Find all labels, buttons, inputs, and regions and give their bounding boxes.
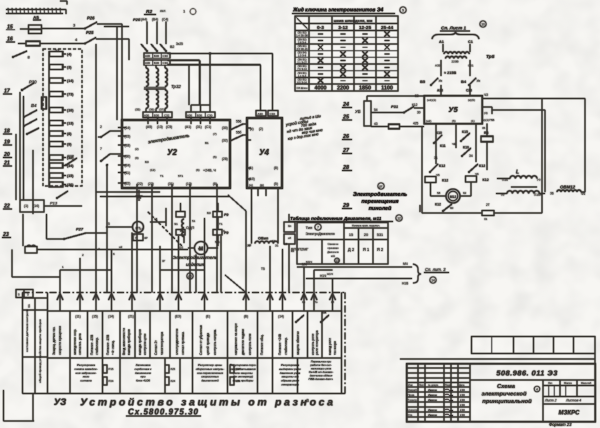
svg-text:принимая: принимая bbox=[328, 247, 340, 250]
svg-text:92: 92 bbox=[463, 191, 467, 195]
svg-text:(30): (30) bbox=[222, 126, 228, 130]
svg-text:А30: А30 bbox=[187, 113, 193, 117]
svg-text:Утв.: Утв. bbox=[408, 413, 414, 417]
svg-text:Питание -15В: Питание -15В bbox=[106, 335, 110, 355]
svg-text:Жид ключина электромагнитов Э: Жид ключина электромагнитов Э4 bbox=[292, 8, 383, 14]
svg-text:Ун: Ун bbox=[439, 79, 443, 83]
svg-text:Сигнал от убранных: Сигнал от убранных bbox=[199, 325, 203, 355]
svg-text:Таблица подключения Двигателя,: Таблица подключения Двигателя, м11 bbox=[290, 215, 382, 221]
svg-text:(5): (5) bbox=[274, 182, 278, 186]
svg-text:С1: С1 bbox=[468, 40, 473, 44]
svg-text:шкив шпинделя, мм: шкив шпинделя, мм bbox=[334, 18, 373, 23]
svg-text:В4: В4 bbox=[31, 103, 37, 108]
svg-text:(2): (2) bbox=[259, 127, 263, 131]
svg-text:58: 58 bbox=[437, 191, 441, 195]
svg-text:(32): (32) bbox=[222, 139, 228, 143]
svg-text:511: 511 bbox=[215, 240, 220, 244]
svg-text:С30: С30 bbox=[163, 61, 169, 65]
svg-text:Изм: Изм bbox=[408, 384, 413, 387]
svg-text:контроль поля: контроль поля bbox=[248, 333, 252, 355]
svg-text:556: 556 bbox=[236, 120, 242, 124]
svg-text:L: L bbox=[516, 170, 519, 176]
svg-text:2.94: 2.94 bbox=[460, 414, 465, 417]
svg-text:Сх.5800.975.30: Сх.5800.975.30 bbox=[128, 408, 199, 417]
svg-text:изделия: изделия bbox=[186, 262, 204, 268]
svg-text:(22): (22) bbox=[137, 182, 143, 186]
svg-text:б25: б25 bbox=[171, 367, 176, 371]
svg-text:двигателей: двигателей bbox=[201, 379, 219, 383]
svg-text:цепей привода: цепей привода bbox=[206, 333, 210, 355]
svg-text:напряжение на якоре: напряжение на якоре bbox=[234, 323, 238, 355]
svg-text:б1: б1 bbox=[272, 239, 276, 243]
svg-text:51: 51 bbox=[192, 219, 196, 223]
svg-text:(13): (13) bbox=[186, 182, 192, 186]
svg-text:220В: 220В bbox=[451, 60, 458, 64]
svg-text:(1): (1) bbox=[471, 119, 475, 123]
svg-text:33: 33 bbox=[55, 49, 59, 53]
svg-text:(14): (14) bbox=[278, 315, 284, 319]
svg-text:Р26: Р26 bbox=[87, 16, 95, 21]
svg-text:Б30: Б30 bbox=[154, 61, 160, 65]
svg-text:(н1)(1): (н1)(1) bbox=[427, 98, 436, 102]
svg-text:контроль напряж.: контроль напряж. bbox=[213, 329, 217, 355]
svg-text:УЗ: УЗ bbox=[54, 397, 66, 408]
svg-text:В5: В5 bbox=[420, 79, 426, 84]
svg-text:МЧ: МЧ bbox=[403, 262, 408, 266]
svg-text:(13): (13) bbox=[67, 122, 74, 126]
svg-text:К12: К12 bbox=[439, 164, 445, 168]
svg-text:БЗ: БЗ bbox=[207, 211, 211, 215]
svg-text:Дата: Дата bbox=[459, 384, 465, 387]
svg-text:2.94: 2.94 bbox=[460, 399, 465, 402]
svg-text:511: 511 bbox=[198, 247, 203, 251]
svg-text:блок 4106: блок 4106 bbox=[136, 379, 150, 383]
svg-text:Иванов: Иванов bbox=[428, 393, 437, 397]
svg-text:7: 7 bbox=[100, 147, 102, 151]
svg-text:(35): (35) bbox=[135, 108, 140, 112]
svg-text:З1: З1 bbox=[275, 244, 279, 248]
svg-text:4Р: 4Р bbox=[144, 236, 148, 240]
svg-text:Вход зависимости: Вход зависимости bbox=[122, 328, 126, 355]
svg-text:Об.Шпин: Об.Шпин bbox=[297, 86, 308, 90]
svg-text:Р2б: Р2б bbox=[133, 17, 141, 22]
svg-text:У5: У5 bbox=[448, 105, 458, 114]
svg-text:Лист: Лист bbox=[419, 384, 425, 387]
svg-text:У2: У2 bbox=[167, 148, 177, 157]
svg-text:(А4): (А4) bbox=[141, 18, 147, 22]
svg-text:С32: С32 bbox=[164, 113, 170, 117]
svg-text:Т5: Т5 bbox=[261, 267, 265, 271]
svg-text:5: 5 bbox=[108, 222, 110, 226]
svg-text:25-44: 25-44 bbox=[381, 25, 394, 31]
svg-text:А30: А30 bbox=[145, 54, 151, 58]
svg-text:Лист 2: Лист 2 bbox=[544, 399, 557, 403]
svg-text:6,5 Э-14: 6,5 Э-14 bbox=[297, 81, 307, 84]
svg-text:реле генератора: реле генератора bbox=[315, 330, 319, 355]
svg-text:а: а bbox=[306, 398, 309, 404]
svg-text:425: 425 bbox=[413, 122, 419, 126]
svg-text:З1: З1 bbox=[434, 156, 438, 160]
svg-text:1,1 Э-3: 1,1 Э-3 bbox=[298, 75, 307, 78]
svg-text:Иванов: Иванов bbox=[428, 388, 437, 392]
svg-text:15: 15 bbox=[349, 233, 353, 237]
svg-text:Н1Ч: Н1Ч bbox=[327, 272, 333, 276]
svg-text:электрической: электрической bbox=[481, 391, 527, 398]
svg-text:электродвигателя: электродвигателя bbox=[175, 328, 179, 355]
svg-text:Сп. лит. 3: Сп. лит. 3 bbox=[425, 267, 446, 272]
svg-text:К12: К12 bbox=[442, 179, 448, 183]
svg-text:1З4: 1З4 bbox=[236, 367, 241, 371]
svg-text:2: 2 bbox=[100, 125, 102, 129]
svg-text:С31: С31 bbox=[468, 64, 474, 68]
svg-text:(ч): (ч) bbox=[537, 178, 541, 182]
svg-text:По: По bbox=[314, 300, 318, 304]
svg-text:сигнализ. узла: сигнализ. узла bbox=[78, 333, 82, 355]
svg-text:30: 30 bbox=[417, 111, 421, 115]
svg-text:н2: н2 bbox=[119, 245, 123, 249]
svg-text:2Т: 2Т bbox=[486, 203, 490, 207]
svg-text:Р28: Р28 bbox=[67, 155, 75, 159]
svg-text:9: 9 bbox=[402, 8, 404, 12]
svg-text:(В): (В) bbox=[244, 315, 248, 319]
svg-text:18: 18 bbox=[154, 217, 158, 221]
svg-text:защита обмотки: защита обмотки bbox=[296, 331, 300, 355]
svg-text:1100: 1100 bbox=[381, 86, 393, 92]
svg-text:(73): (73) bbox=[67, 93, 74, 97]
svg-text:17: 17 bbox=[140, 227, 144, 231]
svg-text:м11: м11 bbox=[331, 255, 336, 258]
svg-text:в2: в2 bbox=[291, 249, 295, 253]
svg-text:Н1Ч: Н1Ч bbox=[320, 274, 326, 278]
svg-text:У4: У4 bbox=[259, 148, 269, 157]
svg-text:Иванов: Иванов bbox=[428, 408, 437, 412]
svg-text:(6): (6) bbox=[196, 168, 200, 172]
svg-text:(1): (1) bbox=[24, 204, 28, 208]
svg-text:ПВБ-динамо-датч.: ПВБ-динамо-датч. bbox=[309, 377, 334, 381]
svg-text:1,5 Э-8: 1,5 Э-8 bbox=[298, 55, 307, 58]
svg-text:К10: К10 bbox=[436, 131, 442, 135]
svg-text:принципиальной: принципиальной bbox=[482, 398, 532, 405]
svg-text:а2: а2 bbox=[248, 243, 252, 247]
svg-text:Р9: Р9 bbox=[224, 213, 228, 217]
svg-text:К12: К12 bbox=[435, 203, 441, 207]
svg-text:(28): (28) bbox=[222, 157, 228, 161]
svg-text:Т1: Т1 bbox=[160, 174, 164, 178]
svg-text:Иванов: Иванов bbox=[428, 413, 437, 417]
svg-text:Р27: Р27 bbox=[76, 227, 84, 232]
svg-text:Иванов: Иванов bbox=[428, 398, 437, 402]
svg-text:(7): (7) bbox=[213, 132, 217, 136]
svg-text:ЧЕ: ЧЕ bbox=[452, 142, 456, 146]
svg-text:+24В, Ч: +24В, Ч bbox=[203, 169, 216, 173]
svg-text:С30: С30 bbox=[207, 113, 213, 117]
svg-text:Т1: Т1 bbox=[219, 222, 223, 226]
svg-text:К10: К10 bbox=[463, 146, 469, 150]
svg-text:(31): (31) bbox=[168, 182, 174, 186]
svg-text:С33: С33 bbox=[466, 89, 472, 93]
svg-text:В2: В2 bbox=[170, 45, 174, 49]
svg-text:3,5 Э6-16: 3,5 Э6-16 bbox=[297, 48, 309, 51]
svg-text:Пров.: Пров. bbox=[408, 393, 416, 397]
svg-text:31: 31 bbox=[484, 217, 488, 221]
svg-text:Смена не: Смена не bbox=[328, 243, 339, 246]
svg-text:Масса: Масса bbox=[564, 381, 572, 385]
svg-text:12-25: 12-25 bbox=[359, 25, 372, 31]
svg-text:Лит.: Лит. bbox=[548, 381, 553, 385]
svg-text:(к)(6): (к)(6) bbox=[468, 98, 475, 102]
svg-text:Разраб.: Разраб. bbox=[408, 388, 418, 392]
svg-text:А1: А1 bbox=[439, 40, 444, 44]
svg-text:1,4 Э5-Э8: 1,4 Э5-Э8 bbox=[296, 35, 308, 38]
svg-text:ЧЗ: ЧЗ bbox=[484, 93, 488, 97]
svg-text:Я 1: Я 1 bbox=[363, 247, 370, 252]
svg-text:(14): (14) bbox=[67, 79, 74, 83]
svg-text:А35: А35 bbox=[435, 64, 441, 68]
svg-text:А30: А30 bbox=[144, 113, 150, 117]
svg-text:3-12: 3-12 bbox=[338, 25, 348, 31]
svg-text:Н.контр.: Н.контр. bbox=[408, 408, 419, 412]
svg-text:Б30: Б30 bbox=[154, 113, 160, 117]
svg-text:(2): (2) bbox=[135, 147, 139, 151]
svg-text:(Е): (Е) bbox=[206, 315, 210, 319]
svg-text:Д 2: Д 2 bbox=[348, 247, 355, 252]
svg-text:Тр32: Тр32 bbox=[171, 84, 181, 89]
svg-text:0-3: 0-3 bbox=[317, 25, 324, 31]
svg-text:генератора: генератора bbox=[281, 383, 299, 387]
svg-text:5Т1: 5Т1 bbox=[178, 174, 184, 178]
svg-text:(9): (9) bbox=[135, 156, 139, 160]
svg-text:10: 10 bbox=[481, 22, 485, 26]
svg-text:90: 90 bbox=[450, 206, 454, 210]
svg-text:(В4): (В4) bbox=[152, 18, 158, 22]
svg-text:(36): (36) bbox=[67, 183, 74, 187]
svg-text:1З6: 1З6 bbox=[236, 379, 241, 383]
svg-text:4: 4 bbox=[536, 387, 538, 391]
svg-text:12: 12 bbox=[397, 216, 401, 220]
svg-text:(н2): (н2) bbox=[426, 119, 431, 123]
svg-text:выход реле: выход реле bbox=[328, 338, 332, 355]
svg-text:ОВМ12: ОВМ12 bbox=[560, 185, 576, 190]
svg-text:(ЕЗ): (ЕЗ) bbox=[175, 315, 181, 319]
svg-text:Я 2: Я 2 bbox=[377, 247, 384, 252]
svg-text:общий провод устройства защиты: общий провод устройства защиты приборов bbox=[38, 319, 42, 383]
svg-text:(8): (8) bbox=[213, 182, 217, 186]
svg-text:Питание -15В: Питание -15В bbox=[90, 335, 94, 355]
svg-text:стабилизир.: стабилизир. bbox=[284, 337, 288, 355]
svg-text:К12: К12 bbox=[412, 103, 418, 107]
svg-text:(16): (16) bbox=[67, 109, 74, 113]
svg-text:(14): (14) bbox=[33, 204, 39, 208]
svg-text:перемещения: перемещения bbox=[361, 199, 399, 205]
svg-text:Р25: Р25 bbox=[86, 30, 94, 35]
svg-text:М1Ч: М1Ч bbox=[306, 260, 312, 264]
svg-text:КА: КА bbox=[27, 304, 31, 308]
svg-text:Э1: Э1 bbox=[174, 222, 178, 226]
svg-text:З4: З4 bbox=[469, 154, 473, 158]
svg-text:скорости вращения: скорости вращения bbox=[58, 326, 62, 355]
svg-text:К12: К12 bbox=[483, 178, 489, 182]
svg-text:Схема: Схема bbox=[497, 384, 516, 390]
svg-text:(36): (36) bbox=[149, 108, 154, 112]
svg-text:С30: С30 bbox=[163, 54, 169, 58]
svg-text:Электродвигатель: Электродвигатель bbox=[353, 192, 407, 198]
svg-text:выхода приборов: выхода приборов bbox=[138, 329, 142, 355]
svg-text:ЭлектроДвигателя: ЭлектроДвигателя bbox=[305, 232, 334, 236]
svg-text:К12: К12 bbox=[479, 164, 485, 168]
svg-text:2,8 Э-4: 2,8 Э-4 bbox=[298, 41, 307, 44]
svg-text:3х25: 3х25 bbox=[176, 42, 183, 46]
svg-text:Питание +24В: Питание +24В bbox=[278, 334, 282, 355]
svg-text:7: 7 bbox=[317, 225, 319, 229]
svg-text:БЗ: БЗ bbox=[145, 160, 149, 164]
svg-text:13: 13 bbox=[335, 259, 339, 263]
svg-text:Листов 4: Листов 4 bbox=[565, 399, 581, 403]
svg-text:ток якоря: ток якоря bbox=[333, 341, 337, 355]
svg-text:508.986. 011 Э3: 508.986. 011 Э3 bbox=[496, 369, 558, 378]
svg-text:(5): (5) bbox=[452, 119, 456, 123]
svg-text:35: 35 bbox=[482, 126, 486, 130]
svg-text:+4г смещ.: +4г смещ. bbox=[111, 340, 115, 355]
svg-text:55б: 55б bbox=[236, 131, 242, 135]
svg-text:замедления скор.: замедления скор. bbox=[73, 329, 77, 355]
svg-text:20: 20 bbox=[364, 233, 368, 237]
svg-text:531: 531 bbox=[377, 233, 383, 237]
svg-text:(15): (15) bbox=[67, 174, 74, 178]
svg-text:14: 14 bbox=[431, 278, 435, 282]
svg-text:(А1): (А1) bbox=[185, 125, 191, 129]
svg-text:№ докум.: № докум. bbox=[428, 384, 439, 387]
svg-text:(5): (5) bbox=[213, 155, 217, 159]
svg-text:≈ 215В: ≈ 215В bbox=[444, 71, 456, 75]
svg-text:А5: А5 bbox=[33, 15, 39, 20]
svg-text:4000: 4000 bbox=[315, 86, 327, 92]
svg-text:С30: С30 bbox=[270, 112, 276, 116]
svg-text:К11: К11 bbox=[440, 144, 446, 148]
svg-text:(в): (в) bbox=[260, 184, 264, 188]
svg-text:состояние датчиков контроля: состояние датчиков контроля bbox=[25, 309, 29, 352]
svg-text:В4: В4 bbox=[461, 79, 467, 84]
svg-text:двигателя подачи: двигателя подачи bbox=[241, 329, 245, 355]
svg-text:(11): (11) bbox=[75, 315, 80, 319]
svg-text:2.94: 2.94 bbox=[460, 404, 465, 407]
svg-text:10: 10 bbox=[284, 242, 288, 246]
svg-text:К15: К15 bbox=[462, 130, 468, 134]
svg-text:(А5): (А5) bbox=[146, 125, 152, 129]
svg-text:(14): (14) bbox=[108, 315, 114, 319]
svg-text:(34): (34) bbox=[67, 164, 74, 168]
svg-text:Р13: Р13 bbox=[50, 201, 58, 206]
svg-text:А30: А30 bbox=[258, 112, 264, 116]
svg-text:(С4): (С4) bbox=[162, 18, 168, 22]
svg-text:выхода приборов: выхода приборов bbox=[127, 329, 131, 355]
svg-text:(С5): (С5) bbox=[166, 125, 172, 129]
svg-text:КА: КА bbox=[322, 311, 327, 315]
svg-text:(з)(1)75В: (з)(1)75В bbox=[482, 118, 494, 122]
svg-text:2,1 Э-27: 2,1 Э-27 bbox=[297, 61, 307, 64]
svg-text:М12: М12 bbox=[450, 195, 456, 199]
svg-text:(23): (23) bbox=[148, 182, 154, 186]
svg-text:Ч5: Ч5 bbox=[436, 173, 440, 177]
svg-text:В1: В1 bbox=[205, 141, 209, 145]
svg-text:(12): (12) bbox=[150, 168, 155, 172]
svg-text:пинолей: пинолей bbox=[369, 205, 392, 212]
svg-text:Н1В: Н1В bbox=[402, 282, 408, 286]
svg-text:стабилизир.: стабилизир. bbox=[95, 337, 99, 355]
svg-text:54: 54 bbox=[374, 108, 378, 112]
svg-text:R8: R8 bbox=[484, 131, 488, 135]
svg-text:контроля цепи: контроля цепи bbox=[143, 333, 147, 355]
svg-text:1850: 1850 bbox=[359, 86, 371, 92]
svg-text:Тр5: Тр5 bbox=[486, 54, 495, 60]
svg-text:(37): (37) bbox=[159, 108, 164, 112]
svg-text:3Г: 3Г bbox=[162, 259, 166, 263]
svg-text:R2: R2 bbox=[146, 9, 152, 15]
svg-text:7,6 Э-14: 7,6 Э-14 bbox=[297, 68, 307, 71]
svg-text:43: 43 bbox=[374, 122, 378, 126]
svg-text:Р31: Р31 bbox=[391, 104, 399, 109]
svg-text:(13): (13) bbox=[157, 125, 163, 129]
svg-text:Тип: Тип bbox=[306, 225, 313, 230]
svg-text:(21): (21) bbox=[128, 315, 134, 319]
svg-text:А30: А30 bbox=[145, 61, 151, 65]
svg-text:(С1): (С1) bbox=[205, 125, 211, 129]
svg-text:А33: А33 bbox=[437, 89, 443, 93]
svg-text:Т: Т bbox=[134, 233, 136, 237]
svg-text:Р9: Р9 bbox=[180, 229, 184, 233]
svg-text:(15): (15) bbox=[92, 315, 98, 319]
svg-text:(ч): (ч) bbox=[249, 184, 253, 188]
svg-text:Б30: Б30 bbox=[197, 113, 203, 117]
svg-text:Формат 23: Формат 23 bbox=[549, 422, 572, 427]
svg-text:об: об bbox=[288, 236, 292, 240]
svg-text:Р15: Р15 bbox=[109, 367, 114, 371]
svg-text:ОВип: ОВип bbox=[258, 237, 269, 241]
svg-text:Сп. Лист 1: Сп. Лист 1 bbox=[441, 26, 467, 31]
svg-text:2.94: 2.94 bbox=[460, 409, 465, 412]
svg-text:Масштаб: Масштаб bbox=[581, 382, 592, 385]
svg-text:Ч6: Ч6 bbox=[475, 172, 479, 176]
svg-text:Питание общ.: Питание общ. bbox=[260, 334, 264, 355]
svg-text:вкл.: вкл. bbox=[160, 9, 166, 13]
svg-text:ЧЧ: ЧЧ bbox=[581, 192, 585, 196]
svg-text:УБ: УБ bbox=[355, 109, 361, 114]
svg-text:2.94: 2.94 bbox=[460, 389, 465, 392]
svg-text:Защищ. датчик газ.: Защищ. датчик газ. bbox=[52, 326, 56, 355]
svg-text:тахогенератора: тахогенератора bbox=[160, 332, 164, 355]
svg-text:сигнала: сигнала bbox=[80, 379, 92, 383]
svg-text:(4): (4) bbox=[484, 111, 488, 115]
svg-text:Ун: Ун bbox=[477, 79, 481, 83]
svg-text:Номера пров. подключ.: Номера пров. подключ. bbox=[352, 224, 380, 228]
svg-text:З6: З6 bbox=[550, 192, 554, 196]
svg-text:Подп.: Подп. bbox=[445, 384, 452, 387]
svg-text:МЗКРС: МЗКРС bbox=[559, 411, 581, 417]
svg-text:Т.контр.: Т.контр. bbox=[408, 398, 418, 402]
svg-text:Устройство защиты от разнос: Устройство защиты от разноса bbox=[80, 397, 333, 409]
svg-text:рт: рт bbox=[379, 184, 383, 188]
svg-text:Электродвигатель: Электродвигатель bbox=[173, 255, 218, 261]
svg-text:б24: б24 bbox=[171, 379, 176, 383]
svg-text:(31): (31) bbox=[196, 125, 202, 129]
svg-text:сигнал превыш.: сигнал превыш. bbox=[181, 331, 185, 355]
svg-text:Двигателя: Двигателя bbox=[327, 251, 339, 254]
svg-text:Эл: Эл bbox=[288, 224, 292, 228]
svg-text:2200: 2200 bbox=[337, 86, 349, 92]
svg-text:Р24: Р24 bbox=[109, 379, 114, 383]
svg-text:2.94: 2.94 bbox=[460, 394, 465, 397]
svg-text:Б30: Б30 bbox=[154, 54, 160, 58]
svg-text:Сигнал 2т: Сигнал 2т bbox=[154, 340, 158, 355]
